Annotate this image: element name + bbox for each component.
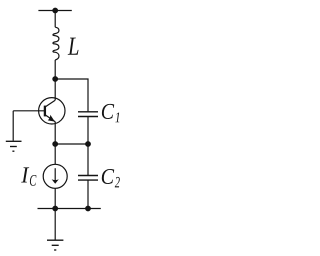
emitter rail wire xyxy=(55,143,88,145)
wire inductor to collector node xyxy=(54,60,56,100)
wire base to left ground xyxy=(12,111,14,141)
node dot bottom right xyxy=(85,206,91,212)
capacitor C1 bottom plate xyxy=(78,116,98,118)
wire emitter node to current source xyxy=(54,144,56,164)
wire emitter down xyxy=(54,122,56,144)
label C2 main C xyxy=(102,169,114,184)
label C2 subscript 2 xyxy=(115,177,120,188)
current source arrowhead xyxy=(52,179,59,184)
capacitor C1 top plate xyxy=(78,111,98,113)
left ground symbol xyxy=(6,141,22,151)
node dot collector xyxy=(52,76,58,82)
capacitor C2 top plate xyxy=(78,175,98,177)
node dot emitter xyxy=(52,141,58,147)
inductor L xyxy=(53,27,59,60)
label C1 subscript 1 xyxy=(115,113,119,123)
wire collector node to C1 branch xyxy=(55,79,88,111)
transistor Q1 circle xyxy=(39,98,65,124)
label I_C main I xyxy=(21,167,29,182)
bottom ground symbol xyxy=(47,240,63,250)
label I_C subscript C xyxy=(30,175,37,186)
transistor Q1 base bar xyxy=(44,106,46,117)
node dot C1 C2 junction xyxy=(85,141,91,147)
transistor Q1 base lead wire xyxy=(13,110,45,112)
label C1 main C xyxy=(102,104,114,119)
capacitor C2 bottom plate xyxy=(78,179,98,181)
node dot bottom left xyxy=(52,206,58,212)
wire current source to bottom rail xyxy=(54,188,56,208)
wire emitter rail to C2 xyxy=(87,144,89,175)
bottom rail wire xyxy=(38,208,101,210)
wire top to inductor xyxy=(54,11,56,28)
label L xyxy=(68,38,79,55)
wire C2 to bottom rail xyxy=(87,180,89,208)
top rail wire xyxy=(38,10,71,12)
transistor Q1 emitter arrowhead xyxy=(48,115,55,122)
current source I_C circle xyxy=(43,164,67,188)
node dot top xyxy=(52,8,58,14)
wire C1 to emitter rail xyxy=(87,117,89,144)
transistor Q1 emitter lead xyxy=(45,115,55,122)
current source arrow shaft xyxy=(54,168,56,182)
transistor Q1 collector lead xyxy=(45,100,55,107)
wire bottom rail to ground xyxy=(54,209,56,240)
